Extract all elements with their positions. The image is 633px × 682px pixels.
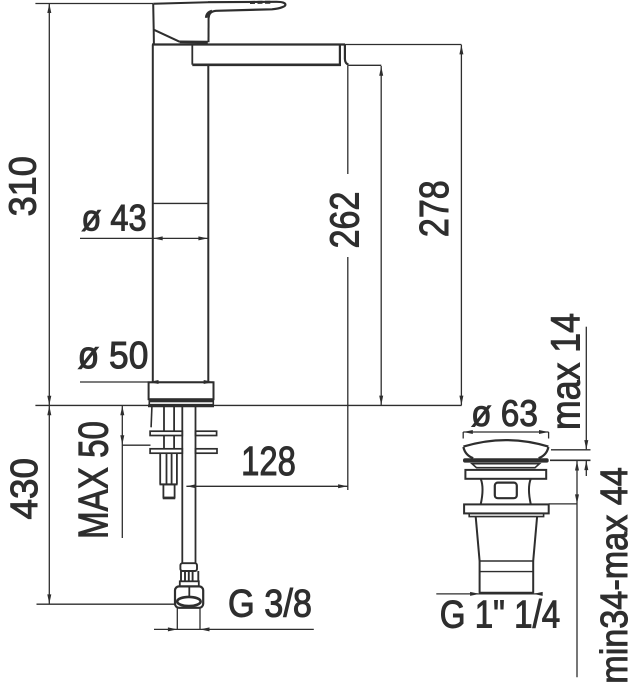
label max 14 — [543, 313, 589, 430]
svg-text:262: 262 — [322, 192, 368, 249]
drain cap bell sides — [463, 447, 548, 458]
drain sub flange — [469, 513, 543, 516]
faucet handle body — [153, 2, 208, 44]
min34 reference line — [549, 503, 578, 505]
drain lower flange — [464, 504, 549, 513]
dimension line min34-max44 — [575, 461, 579, 677]
label 128 — [241, 439, 296, 484]
label 262 — [322, 192, 368, 249]
dimension line G3/8 — [154, 627, 314, 631]
washer nut 1 — [150, 431, 217, 435]
drain cap rim — [463, 458, 549, 462]
spout end face — [340, 45, 349, 65]
svg-text:G 3/8: G 3/8 — [228, 581, 312, 625]
label dia 50 — [78, 334, 149, 376]
svg-text:ø 43: ø 43 — [81, 198, 146, 239]
lever top dashes — [250, 1, 270, 4]
dimension line 128 — [186, 484, 347, 488]
G3/8 extension lines — [177, 608, 200, 629]
mounting stud stub — [150, 407, 153, 428]
dimension line MAX 50 — [120, 406, 150, 538]
faucet lever handle — [206, 2, 285, 43]
svg-text:min34-max 44: min34-max 44 — [592, 467, 633, 682]
dimension line dia 50 — [80, 380, 213, 384]
washer nut 2 — [150, 449, 217, 453]
spout top edge — [152, 43, 345, 45]
spout underside left step — [191, 45, 193, 65]
label 310 — [1, 156, 44, 216]
drain upper flange — [465, 470, 546, 479]
dimension line 430 — [47, 406, 51, 604]
hose end reference line — [37, 603, 177, 605]
base flange — [148, 400, 214, 406]
dimension line 310 — [47, 4, 51, 406]
label G 3/8 — [228, 581, 312, 625]
label 278 — [411, 180, 457, 237]
dimension line 262 — [379, 66, 383, 405]
drain tapered body — [476, 517, 537, 561]
dimension line max 14 — [584, 327, 588, 476]
dimension line 278 — [459, 45, 463, 406]
threaded shank tubes — [164, 407, 174, 449]
drain cap top — [463, 440, 548, 447]
label MAX 50 — [70, 421, 116, 539]
label dia 43 — [81, 198, 146, 239]
drain tail pipe — [479, 561, 534, 593]
extension line spout bottom — [349, 64, 382, 66]
dimension line dia 43 — [80, 236, 208, 240]
faucet column left edge — [152, 45, 154, 383]
spout bottom edge — [192, 64, 341, 67]
base cup — [149, 382, 214, 402]
svg-text:MAX 50: MAX 50 — [70, 421, 116, 539]
svg-text:max 14: max 14 — [543, 313, 589, 430]
label dia 63 — [471, 392, 538, 434]
drain square hole — [495, 483, 517, 499]
max14 reference lines — [550, 450, 591, 461]
svg-text:G 1" 1/4: G 1" 1/4 — [440, 592, 560, 636]
top extension line — [35, 3, 153, 5]
extension line spout end — [347, 65, 349, 490]
hose connector ribs — [181, 571, 198, 581]
svg-text:ø 50: ø 50 — [78, 334, 149, 376]
faucet column right edge — [207, 65, 209, 383]
column joint line — [153, 202, 209, 204]
rod end nut — [163, 484, 175, 498]
drain seal washer — [472, 464, 540, 468]
svg-text:278: 278 — [411, 180, 457, 237]
label 430 — [3, 458, 46, 519]
supply hose upper — [182, 407, 195, 563]
countertop line — [35, 404, 461, 406]
G3/8 nut — [175, 586, 203, 607]
svg-text:ø 63: ø 63 — [471, 392, 538, 434]
svg-text:430: 430 — [3, 458, 46, 519]
extension line spout top — [345, 44, 461, 46]
threaded rod — [160, 453, 178, 484]
dimension line dia 63 — [463, 430, 548, 439]
hose connector collar — [180, 563, 197, 571]
hose connector band — [180, 581, 199, 586]
dimension line G1 1/4 — [436, 592, 542, 596]
label G 1 1/4 — [440, 592, 560, 636]
svg-text:128: 128 — [241, 439, 296, 484]
drain neck — [481, 479, 531, 505]
svg-text:310: 310 — [1, 156, 44, 216]
label min34-max44 — [592, 467, 633, 682]
